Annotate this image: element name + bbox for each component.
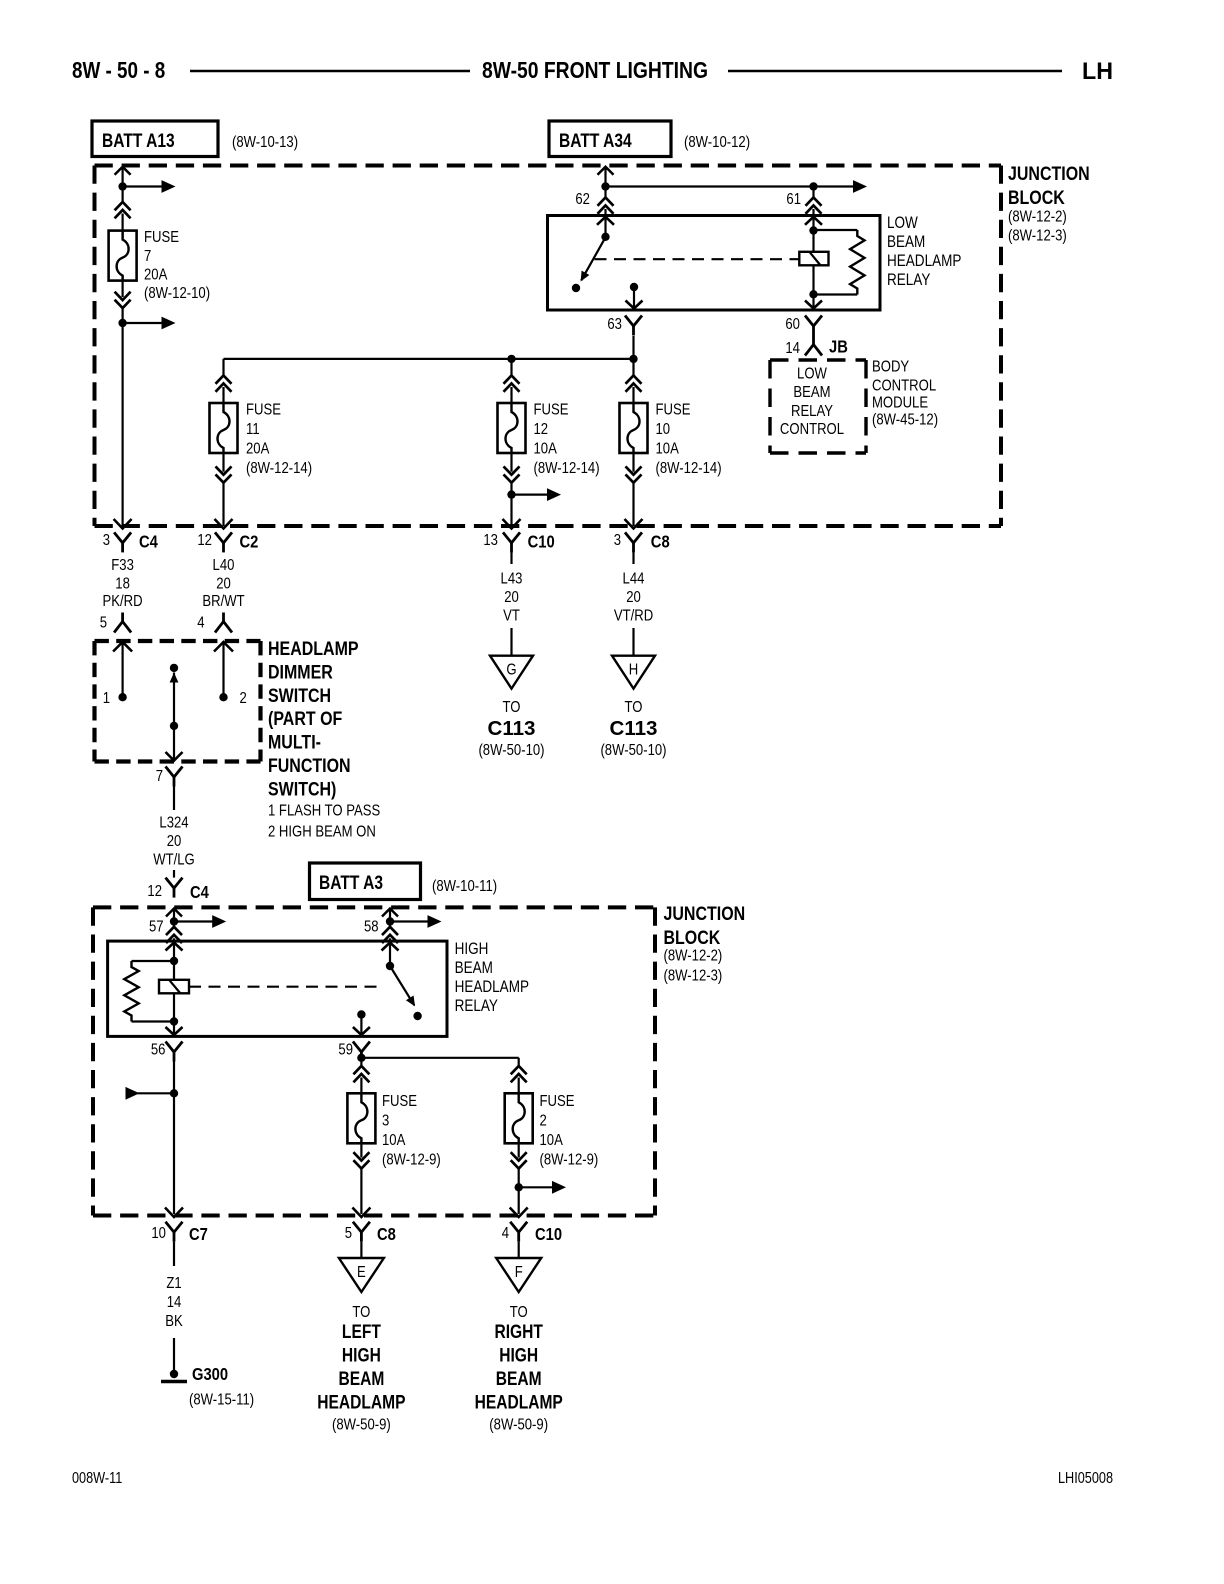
svg-text:BLOCK: BLOCK [664,926,721,948]
svg-text:7: 7 [144,248,151,265]
svg-text:(8W-12-14): (8W-12-14) [655,460,721,477]
svg-text:Z1: Z1 [166,1275,181,1292]
svg-text:20A: 20A [144,266,168,283]
svg-text:HEADLAMP: HEADLAMP [455,978,529,997]
svg-text:VT: VT [503,607,520,624]
svg-text:(8W-50-10): (8W-50-10) [478,742,544,759]
svg-text:C113: C113 [609,716,657,739]
svg-text:12: 12 [197,532,212,549]
svg-text:FUSE: FUSE [144,229,179,246]
svg-text:(8W-12-9): (8W-12-9) [540,1151,599,1168]
svg-text:FUSE: FUSE [540,1093,575,1110]
svg-text:BK: BK [165,1313,183,1330]
svg-text:20A: 20A [246,440,270,457]
svg-text:C10: C10 [528,532,555,552]
svg-text:C4: C4 [190,883,210,903]
svg-text:10A: 10A [655,440,679,457]
svg-text:20: 20 [167,833,182,850]
svg-text:5: 5 [100,614,107,631]
svg-text:2 HIGH BEAM ON: 2 HIGH BEAM ON [268,823,376,840]
svg-text:BEAM: BEAM [455,959,493,978]
svg-text:TO: TO [503,699,521,716]
svg-text:3: 3 [382,1112,389,1129]
svg-text:C8: C8 [377,1225,396,1245]
svg-text:10A: 10A [382,1132,406,1149]
svg-text:BATT A13: BATT A13 [102,130,175,152]
svg-text:008W-11: 008W-11 [72,1470,122,1487]
svg-text:20: 20 [216,575,231,592]
svg-text:MULTI-: MULTI- [268,731,321,753]
svg-text:(8W-50-9): (8W-50-9) [332,1416,391,1433]
svg-text:C2: C2 [239,532,258,552]
svg-text:JUNCTION: JUNCTION [1008,163,1090,185]
svg-text:HIGH: HIGH [342,1344,381,1366]
svg-text:10A: 10A [540,1132,564,1149]
svg-text:FUSE: FUSE [655,401,690,418]
svg-text:JUNCTION: JUNCTION [664,903,746,925]
svg-text:VT/RD: VT/RD [614,607,653,624]
svg-text:F: F [515,1264,523,1281]
svg-text:LEFT: LEFT [342,1321,381,1343]
svg-text:G: G [506,661,516,678]
svg-text:BEAM: BEAM [496,1368,542,1390]
svg-text:HEADLAMP: HEADLAMP [887,252,961,271]
svg-text:4: 4 [502,1225,509,1242]
svg-text:(8W-50-10): (8W-50-10) [600,742,666,759]
svg-text:RIGHT: RIGHT [494,1321,543,1343]
svg-text:3: 3 [103,532,110,549]
svg-text:(8W-12-3): (8W-12-3) [664,967,723,984]
svg-text:(PART OF: (PART OF [268,708,342,730]
svg-text:8W - 50 - 8: 8W - 50 - 8 [72,58,165,83]
svg-text:C4: C4 [139,532,159,552]
svg-text:RELAY: RELAY [791,403,833,420]
svg-text:BEAM: BEAM [793,384,830,401]
svg-text:56: 56 [151,1041,166,1058]
svg-text:E: E [357,1264,366,1281]
svg-text:(8W-12-14): (8W-12-14) [246,460,312,477]
svg-text:61: 61 [786,191,801,208]
svg-text:BATT A34: BATT A34 [559,130,632,152]
svg-text:BEAM: BEAM [887,233,925,252]
svg-text:57: 57 [149,918,164,935]
svg-text:DIMMER: DIMMER [268,661,333,683]
svg-text:MODULE: MODULE [872,394,928,411]
svg-text:L43: L43 [501,570,523,587]
svg-text:F33: F33 [111,557,134,574]
svg-text:2: 2 [239,690,246,707]
svg-text:BODY: BODY [872,358,909,375]
svg-text:4: 4 [197,614,204,631]
svg-text:H: H [629,661,638,678]
svg-text:11: 11 [246,421,260,438]
svg-text:HIGH: HIGH [499,1344,538,1366]
svg-text:BR/WT: BR/WT [202,593,244,610]
svg-text:SWITCH): SWITCH) [268,778,336,800]
svg-text:L324: L324 [159,814,188,831]
svg-text:TO: TO [510,1304,528,1321]
svg-text:14: 14 [785,340,800,357]
svg-text:HEADLAMP: HEADLAMP [268,638,359,660]
svg-text:FUSE: FUSE [382,1093,417,1110]
svg-text:59: 59 [338,1041,353,1058]
svg-text:20: 20 [504,589,519,606]
svg-text:TO: TO [352,1304,370,1321]
svg-text:L44: L44 [623,570,645,587]
svg-text:12: 12 [147,883,162,900]
svg-text:G300: G300 [192,1365,228,1385]
svg-text:CONTROL: CONTROL [780,421,844,438]
svg-text:TO: TO [625,699,643,716]
svg-text:FUNCTION: FUNCTION [268,755,351,777]
svg-text:FUSE: FUSE [246,401,281,418]
svg-text:(8W-12-14): (8W-12-14) [534,460,600,477]
svg-text:L40: L40 [213,557,235,574]
svg-text:LOW: LOW [797,365,827,382]
svg-text:BLOCK: BLOCK [1008,187,1065,209]
svg-text:10: 10 [151,1225,166,1242]
svg-text:HEADLAMP: HEADLAMP [475,1391,563,1413]
svg-text:18: 18 [115,575,130,592]
svg-text:(8W-12-9): (8W-12-9) [382,1151,441,1168]
svg-text:BATT A3: BATT A3 [319,872,383,894]
svg-text:JB: JB [829,337,848,357]
svg-text:58: 58 [364,918,379,935]
svg-text:(8W-12-2): (8W-12-2) [1008,208,1067,225]
svg-text:C8: C8 [651,532,670,552]
svg-text:C113: C113 [487,716,535,739]
svg-text:BEAM: BEAM [338,1368,384,1390]
svg-text:8W-50 FRONT LIGHTING: 8W-50 FRONT LIGHTING [482,58,708,83]
svg-text:PK/RD: PK/RD [103,593,143,610]
svg-text:10: 10 [655,421,670,438]
svg-text:14: 14 [167,1294,182,1311]
svg-text:(8W-12-2): (8W-12-2) [664,947,723,964]
svg-text:C7: C7 [189,1225,208,1245]
svg-text:(8W-12-3): (8W-12-3) [1008,227,1067,244]
svg-text:(8W-15-11): (8W-15-11) [189,1391,254,1408]
svg-text:(8W-10-12): (8W-10-12) [684,134,750,151]
svg-text:LOW: LOW [887,214,918,233]
svg-text:HIGH: HIGH [455,940,489,959]
svg-text:3: 3 [614,532,621,549]
svg-text:C10: C10 [535,1225,562,1245]
svg-text:(8W-10-13): (8W-10-13) [232,134,298,151]
svg-text:62: 62 [575,191,590,208]
svg-text:63: 63 [607,316,622,333]
svg-text:7: 7 [156,768,163,785]
svg-text:5: 5 [345,1225,352,1242]
svg-text:SWITCH: SWITCH [268,684,331,706]
svg-text:CONTROL: CONTROL [872,377,936,394]
svg-text:LHI05008: LHI05008 [1058,1470,1113,1487]
svg-text:60: 60 [785,316,800,333]
svg-text:RELAY: RELAY [887,271,930,290]
svg-text:LH: LH [1082,57,1113,84]
svg-text:(8W-12-10): (8W-12-10) [144,285,210,302]
svg-text:20: 20 [626,589,641,606]
svg-text:2: 2 [540,1112,547,1129]
svg-text:13: 13 [483,532,498,549]
svg-text:(8W-45-12): (8W-45-12) [872,411,938,428]
svg-text:(8W-10-11): (8W-10-11) [432,878,497,895]
svg-text:1 FLASH TO PASS: 1 FLASH TO PASS [268,802,380,819]
svg-text:HEADLAMP: HEADLAMP [317,1391,405,1413]
svg-text:FUSE: FUSE [534,401,569,418]
svg-text:1: 1 [103,690,110,707]
svg-text:WT/LG: WT/LG [153,851,195,868]
svg-text:RELAY: RELAY [455,997,498,1016]
svg-text:(8W-50-9): (8W-50-9) [489,1416,548,1433]
svg-text:12: 12 [534,421,549,438]
svg-text:10A: 10A [534,440,558,457]
